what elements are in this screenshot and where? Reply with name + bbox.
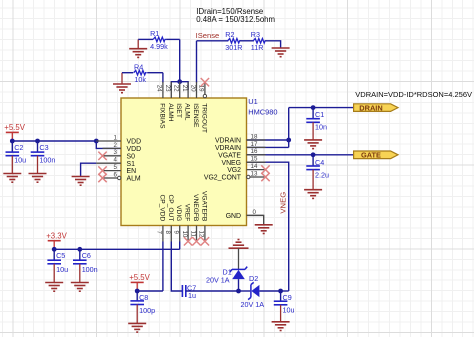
svg-text:9: 9 xyxy=(173,231,180,235)
junction D1 xyxy=(236,289,241,294)
pin 20 ISENSE xyxy=(196,82,198,98)
ground (R1) xyxy=(129,49,147,58)
wire +3.3V rail to VDIG xyxy=(54,248,180,250)
svg-text:0: 0 xyxy=(253,209,257,216)
wire C7 to D1 node xyxy=(186,290,239,292)
svg-text:20V 1A: 20V 1A xyxy=(241,300,265,309)
wire C8 to ground xyxy=(136,305,138,324)
capacitor C5 xyxy=(47,260,61,264)
svg-text:10u: 10u xyxy=(56,265,68,274)
pin 23 ALMH xyxy=(170,82,172,98)
svg-text:VDIG: VDIG xyxy=(175,205,182,221)
no-ERC X pin 12 xyxy=(201,237,209,245)
resistor R3 xyxy=(253,39,266,44)
capacitor C7 xyxy=(182,285,185,297)
svg-text:C6: C6 xyxy=(82,251,91,260)
svg-text:100n: 100n xyxy=(82,265,98,274)
port DRAIN xyxy=(354,103,398,112)
pin 5 EN xyxy=(103,170,122,172)
pin 11 VNEGFB xyxy=(196,226,198,242)
wire pin8 to C7 xyxy=(171,242,182,292)
wire C1 to ground xyxy=(312,122,314,140)
pin 1 VDD xyxy=(96,140,121,142)
junction C5 xyxy=(52,247,57,252)
wire pin17 VDRAIN xyxy=(247,146,289,148)
wire R1 to ISET xyxy=(166,38,180,40)
svg-text:7: 7 xyxy=(156,231,163,235)
svg-text:21: 21 xyxy=(181,85,188,92)
wire +5.5V to pin7 xyxy=(137,290,163,292)
wire R1 ground stub xyxy=(137,39,139,48)
wire to C8 xyxy=(136,291,138,301)
resistor R2 xyxy=(228,39,241,44)
svg-text:VGATE: VGATE xyxy=(218,152,241,159)
capacitor C6 xyxy=(73,260,87,264)
junction C4 xyxy=(311,152,316,157)
pin 17 VDRAIN xyxy=(247,146,266,148)
junction C9/VNEG xyxy=(278,289,283,294)
junction VDRAIN xyxy=(286,138,291,143)
svg-text:10u: 10u xyxy=(14,155,26,164)
svg-text:FIXBIAS: FIXBIAS xyxy=(158,103,165,129)
no-ERC X pin 3 xyxy=(98,152,106,160)
svg-text:14: 14 xyxy=(251,163,258,170)
svg-text:11: 11 xyxy=(189,231,196,238)
pin 13 VG2_CONT xyxy=(250,176,266,178)
svg-text:VGATEFB: VGATEFB xyxy=(200,191,207,222)
wire C3 to ground xyxy=(37,156,39,174)
wire VDRAIN join xyxy=(288,140,290,147)
ground (C9) xyxy=(272,322,290,331)
svg-text:0.48A = 150/312.5ohm: 0.48A = 150/312.5ohm xyxy=(196,15,275,24)
svg-text:C9: C9 xyxy=(283,293,292,302)
junction C3 xyxy=(35,139,40,144)
wire R4 ground stub xyxy=(121,73,123,84)
ground (GND pin) xyxy=(255,225,273,234)
pin 24 FIXBIAS xyxy=(162,82,164,98)
junction C2 xyxy=(10,139,15,144)
wire ground to R1 xyxy=(138,38,153,40)
svg-text:VNEGFB: VNEGFB xyxy=(192,194,199,222)
wire R3 to ground xyxy=(266,41,281,48)
junction C1 xyxy=(311,105,316,110)
junction pin22 tie xyxy=(177,79,182,84)
ground (C6) xyxy=(71,283,89,292)
svg-text:ISET: ISET xyxy=(175,103,182,118)
svg-text:20: 20 xyxy=(189,85,196,92)
wire ground to R4 xyxy=(122,72,133,74)
ground (R2/R3) xyxy=(272,48,290,57)
wire to C3 xyxy=(37,141,39,152)
svg-text:+5.5V: +5.5V xyxy=(129,273,150,282)
wire pin16 VGATE to GATE port xyxy=(247,154,354,156)
ground (S1) xyxy=(72,177,90,186)
ground (C8) xyxy=(128,323,146,332)
pin 9 VDIG xyxy=(179,226,181,242)
wire ground to D1 cathode xyxy=(238,248,240,269)
no-ERC X pin 11 xyxy=(192,237,200,245)
pin 18 VDRAIN xyxy=(247,139,266,141)
pin 2 VDD xyxy=(103,147,122,149)
svg-text:S1: S1 xyxy=(127,161,136,168)
svg-text:ISense: ISense xyxy=(196,31,220,40)
wire R4 to FIXBIAS xyxy=(147,72,163,74)
svg-text:VG2_CONT: VG2_CONT xyxy=(204,175,242,182)
port GATE xyxy=(354,151,398,160)
no-ERC X pin 13 xyxy=(261,173,269,181)
junction C6 xyxy=(77,247,82,252)
svg-text:3: 3 xyxy=(114,149,118,156)
svg-text:2.2u: 2.2u xyxy=(315,170,329,179)
svg-text:13: 13 xyxy=(251,170,258,177)
ground (C3) xyxy=(29,174,47,183)
no-ERC X pin 10 xyxy=(184,237,192,245)
svg-text:18: 18 xyxy=(251,133,258,140)
no-ERC X pin 6 xyxy=(98,174,106,182)
svg-text:15: 15 xyxy=(251,156,258,163)
wire to C5 xyxy=(53,249,55,260)
svg-text:C1: C1 xyxy=(315,110,324,119)
svg-text:DRAIN: DRAIN xyxy=(359,103,382,112)
svg-text:R3: R3 xyxy=(251,30,260,39)
capacitor C1 xyxy=(306,119,320,123)
svg-text:VDD: VDD xyxy=(127,139,142,146)
wire GND pin to ground xyxy=(247,215,264,224)
svg-text:10u: 10u xyxy=(283,306,295,315)
svg-text:VNEG: VNEG xyxy=(221,160,241,167)
svg-text:10k: 10k xyxy=(134,75,146,84)
power port +3.3V xyxy=(46,231,67,249)
svg-text:S0: S0 xyxy=(127,153,136,160)
wire S1 to ground xyxy=(81,163,97,176)
power port +5.5V (bottom) xyxy=(129,273,150,291)
junction C8/CP_VDD xyxy=(135,289,140,294)
U1 pin 0 GND xyxy=(247,214,264,216)
wire to C2 xyxy=(11,141,13,152)
wire branch to pin2 xyxy=(96,141,121,148)
wire C9 to ground xyxy=(280,305,282,322)
svg-text:5: 5 xyxy=(114,164,118,171)
svg-text:6: 6 xyxy=(114,171,118,178)
svg-text:23: 23 xyxy=(164,85,171,92)
svg-text:22: 22 xyxy=(173,85,180,92)
svg-text:C4: C4 xyxy=(315,158,324,167)
svg-text:ALML: ALML xyxy=(184,103,191,121)
junction pin1/pin2 branch xyxy=(94,139,99,144)
svg-text:+5.5V: +5.5V xyxy=(4,123,25,132)
svg-text:100p: 100p xyxy=(139,306,155,315)
wire up to pin9 xyxy=(179,242,181,250)
pin 21 ALML xyxy=(187,82,189,98)
ground (C4) xyxy=(304,190,322,199)
pin 14 VG2 xyxy=(247,169,266,171)
svg-text:CP_VDD: CP_VDD xyxy=(158,195,165,222)
wire pin7 vertical xyxy=(162,242,164,292)
pin 12 VGATEFB xyxy=(204,226,206,242)
pin 16 VGATE xyxy=(247,154,266,156)
wire C2 to ground xyxy=(11,156,13,174)
pin 4 S1 xyxy=(96,162,121,164)
svg-text:HMC980: HMC980 xyxy=(248,107,277,116)
pin 19 TRIGOUT xyxy=(204,82,206,95)
wire down to pin22 xyxy=(179,39,181,82)
ground (C5) xyxy=(45,283,63,292)
svg-text:U1: U1 xyxy=(248,97,257,106)
svg-text:EN: EN xyxy=(127,168,137,175)
svg-text:GND: GND xyxy=(226,213,241,220)
capacitor C3 xyxy=(31,152,45,156)
no-ERC X pin 14 xyxy=(261,165,269,173)
svg-text:301R: 301R xyxy=(225,43,242,52)
diode D1 (zener, 20V 1A) xyxy=(230,267,247,291)
wire C4 to ground xyxy=(312,170,314,190)
wire to VNEG vertical xyxy=(281,290,289,292)
svg-text:R2: R2 xyxy=(225,30,234,39)
svg-text:2: 2 xyxy=(114,142,118,149)
wire R2 to R3 xyxy=(240,40,254,42)
svg-text:+3.3V: +3.3V xyxy=(46,231,67,240)
svg-text:VDD: VDD xyxy=(127,146,142,153)
svg-text:1: 1 xyxy=(114,134,118,141)
ground (C2) xyxy=(3,174,21,183)
svg-text:VDRAIN=VDD-ID*RDSON=4.256V: VDRAIN=VDD-ID*RDSON=4.256V xyxy=(355,90,472,99)
svg-text:16: 16 xyxy=(251,148,258,155)
wire to C4 xyxy=(312,155,314,166)
power port +5.5V (left) xyxy=(4,123,25,141)
pin 22 ISET xyxy=(179,82,181,98)
wire to C6 xyxy=(79,249,81,260)
ground (D1, flipped) xyxy=(229,240,249,249)
svg-text:C8: C8 xyxy=(139,293,148,302)
svg-text:4: 4 xyxy=(114,157,118,164)
wire ISense to R2 xyxy=(197,40,229,42)
svg-text:24: 24 xyxy=(156,85,163,92)
svg-text:TRIGOUT: TRIGOUT xyxy=(200,103,207,133)
wire D1 node to D2 xyxy=(239,290,251,292)
capacitor C2 xyxy=(6,152,20,156)
wire ISENSE vertical xyxy=(196,41,198,83)
svg-text:VNEG: VNEG xyxy=(279,192,288,214)
svg-text:R4: R4 xyxy=(134,63,143,72)
resistor R1 xyxy=(153,37,166,42)
wire down to pin24 xyxy=(162,73,164,83)
svg-text:C3: C3 xyxy=(39,143,48,152)
wire pin15 VNEG down xyxy=(247,162,289,291)
capacitor C4 xyxy=(306,166,320,170)
svg-text:VREF: VREF xyxy=(184,204,191,222)
ground (R4) xyxy=(113,84,131,93)
ground (C1) xyxy=(304,140,322,149)
capacitor C9 xyxy=(274,301,288,305)
svg-text:4.99k: 4.99k xyxy=(150,42,168,51)
wire VDRAIN up xyxy=(288,108,290,140)
svg-text:10n: 10n xyxy=(315,123,327,132)
svg-text:C2: C2 xyxy=(14,143,23,152)
svg-text:C5: C5 xyxy=(56,251,65,260)
wire pin18 VDRAIN xyxy=(247,139,289,141)
no-ERC X pin 19 xyxy=(201,78,209,86)
wire C6 to ground xyxy=(79,264,81,283)
resistor R4 xyxy=(134,70,147,75)
pin 3 S0 xyxy=(103,155,122,157)
wire ALMH-ISET-ALML tie xyxy=(171,82,188,90)
svg-text:D2: D2 xyxy=(249,274,258,283)
svg-text:GATE: GATE xyxy=(361,151,381,160)
capacitor C8 xyxy=(130,301,144,305)
wire to C9 xyxy=(280,291,282,301)
pin 8 CP_OUT xyxy=(170,226,172,242)
svg-text:ISENSE: ISENSE xyxy=(192,103,199,128)
no-ERC X pin 5 xyxy=(98,166,106,174)
wire +5.5V rail xyxy=(12,140,96,142)
svg-text:8: 8 xyxy=(164,231,171,235)
svg-text:1u: 1u xyxy=(188,291,196,300)
svg-text:VDRAIN: VDRAIN xyxy=(215,138,241,145)
diode D2 (zener, 20V 1A) xyxy=(248,282,281,299)
pin 10 VREF xyxy=(187,226,189,242)
svg-text:ALM: ALM xyxy=(127,176,141,183)
svg-text:100n: 100n xyxy=(39,155,55,164)
wire to C1 xyxy=(312,108,314,119)
svg-text:CP_OUT: CP_OUT xyxy=(167,195,174,222)
op-amp U1 HMC980 body xyxy=(121,98,247,226)
svg-text:R1: R1 xyxy=(150,29,159,38)
pin 15 VNEG xyxy=(247,161,266,163)
svg-text:17: 17 xyxy=(251,141,258,148)
pin 7 CP_VDD xyxy=(162,226,164,242)
svg-text:11R: 11R xyxy=(251,43,264,52)
svg-text:VG2: VG2 xyxy=(227,167,241,174)
wire C5 to ground xyxy=(53,264,55,283)
svg-text:20V 1A: 20V 1A xyxy=(206,275,230,284)
svg-text:ALMH: ALMH xyxy=(167,103,174,122)
svg-text:VDRAIN: VDRAIN xyxy=(215,145,241,152)
pin 6 ALM xyxy=(103,177,118,179)
wire VDRAIN to DRAIN port xyxy=(289,107,354,109)
